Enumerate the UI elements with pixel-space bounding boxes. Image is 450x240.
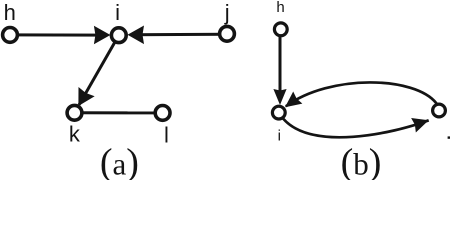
arrowhead h to i graph b (273, 89, 286, 105)
wire i to k (79, 35, 119, 105)
svg-text:k: k (69, 122, 81, 147)
svg-text:h: h (4, 0, 16, 25)
svg-text:i: i (115, 0, 120, 25)
node i graph b (272, 106, 285, 119)
arrowhead upper arc into i graph b (280, 92, 302, 114)
wire h to i graph b (279, 29, 282, 99)
node i (111, 28, 126, 43)
svg-text:l: l (164, 123, 169, 148)
period after figure (448, 136, 450, 138)
arrowhead i to k (70, 87, 94, 111)
arrowhead lower arc into right node graph b (411, 113, 431, 132)
node k (67, 105, 82, 120)
svg-text:i: i (278, 128, 281, 145)
arrowhead j to i (128, 26, 145, 45)
svg-text:j: j (224, 0, 230, 25)
node h graph b (274, 23, 287, 36)
arrowhead h to i (94, 26, 111, 45)
node right graph b (433, 104, 446, 117)
wire lower arc b (279, 113, 429, 138)
svg-text:h: h (276, 0, 284, 16)
wire k to l (75, 111, 163, 114)
node l (155, 106, 170, 121)
wire h to i (10, 33, 106, 36)
node h (3, 28, 18, 43)
wire upper arc b (286, 82, 439, 110)
svg-text:(b): (b) (341, 142, 382, 181)
wire j to i (131, 33, 227, 37)
svg-text:(a): (a) (100, 142, 139, 181)
node j (220, 26, 235, 41)
